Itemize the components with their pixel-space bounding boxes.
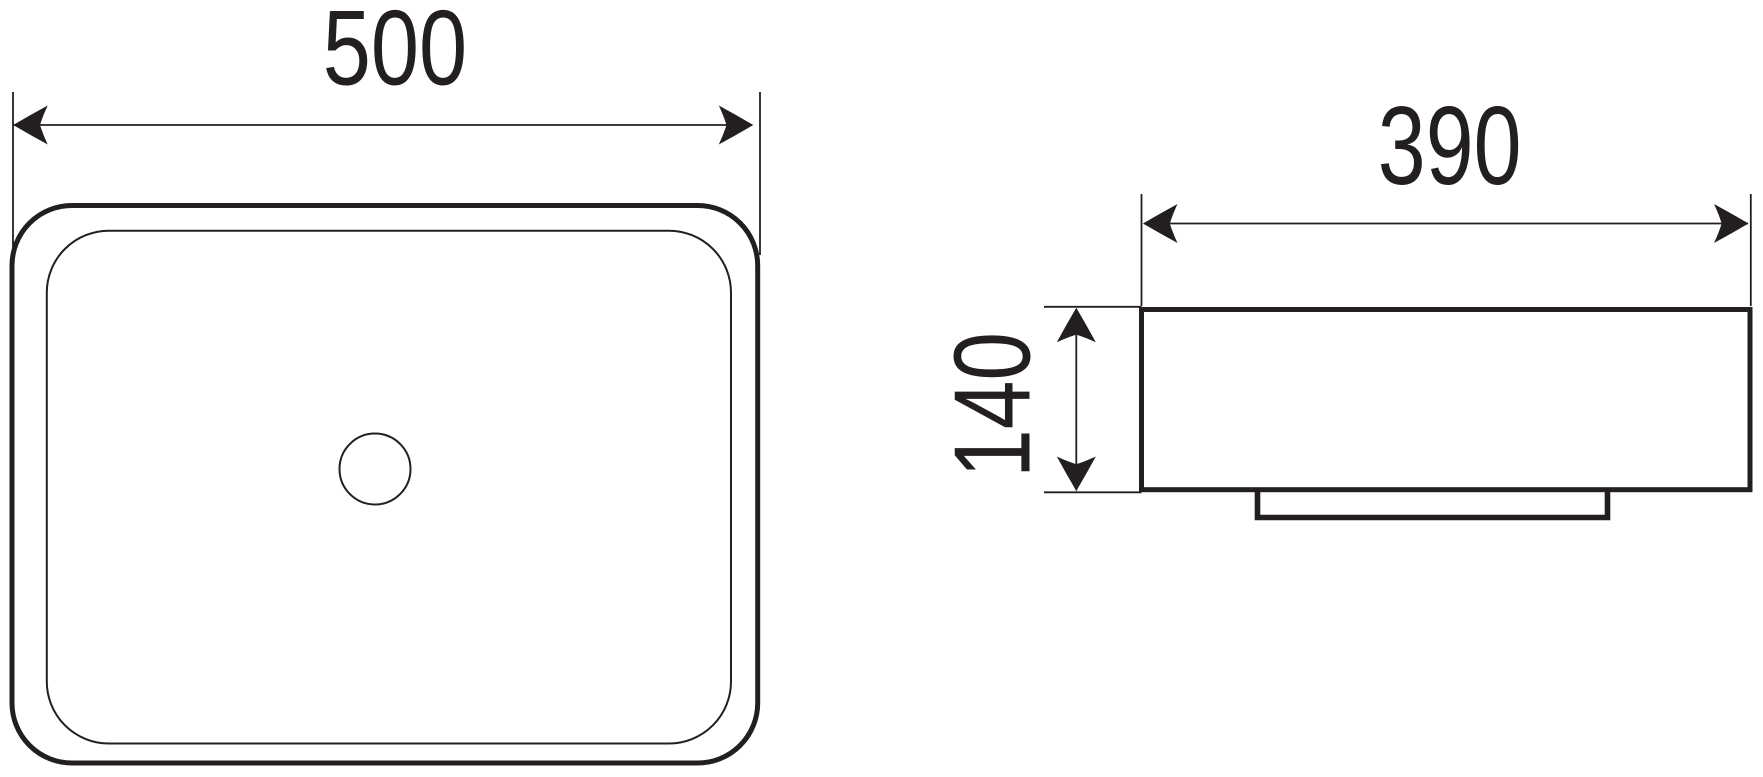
svg-text:390: 390: [1378, 83, 1522, 208]
arrowhead bottom of 140 dim: [1057, 457, 1096, 492]
dimension line 140: [1075, 309, 1077, 491]
basin bottom foot tab: [1258, 489, 1608, 518]
basin body side view: [1142, 310, 1751, 490]
arrowhead right of 390 dim: [1714, 204, 1749, 243]
basin inner rim: [47, 231, 731, 744]
dimension line 500: [14, 124, 752, 126]
basin outer rim: [12, 206, 758, 764]
svg-text:500: 500: [323, 0, 467, 107]
svg-text:140: 140: [932, 332, 1054, 478]
arrowhead left of 500 dim: [13, 106, 48, 145]
arrowhead top of 140 dim: [1057, 308, 1096, 343]
extension line left of 390 dim: [1141, 194, 1143, 306]
extension line bottom of 140 dim: [1044, 491, 1142, 493]
extension line top of 140 dim: [1044, 306, 1142, 308]
extension line right of 500 dim: [759, 92, 761, 255]
drain hole: [340, 434, 411, 505]
arrowhead left of 390 dim: [1143, 204, 1178, 243]
extension line right of 390 dim: [1750, 194, 1752, 306]
dimension line 390: [1144, 223, 1748, 225]
extension line left of 500 dim: [12, 92, 14, 255]
arrowhead right of 500 dim: [719, 106, 754, 145]
